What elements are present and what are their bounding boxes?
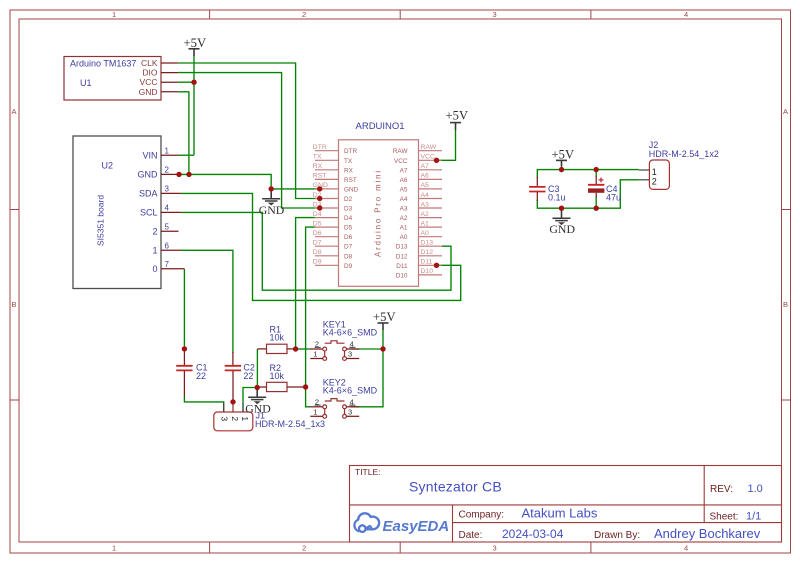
pin 2 GND (161, 173, 179, 175)
svg-text:2: 2 (152, 227, 157, 237)
svg-text:D10: D10 (396, 272, 408, 279)
svg-text:D10: D10 (421, 268, 434, 275)
svg-text:22: 22 (196, 371, 206, 381)
svg-text:D9: D9 (344, 263, 353, 270)
svg-text:1: 1 (112, 10, 116, 19)
svg-text:+5V: +5V (446, 109, 469, 123)
svg-text:+5V: +5V (373, 310, 396, 324)
title block column divider (logo) (452, 505, 454, 542)
capacitor C2 22 (225, 352, 255, 402)
pin 1 stub (242, 403, 244, 413)
junction ARDUINO1 D2 pin (317, 196, 322, 201)
wire C4 bottom lead lower part (595, 196, 597, 208)
junction ARDUINO1 VCC pin (434, 158, 439, 163)
svg-text:3: 3 (348, 350, 352, 359)
svg-text:RX: RX (313, 163, 323, 170)
pin 1 VIN (161, 154, 179, 156)
wire +5V flag down through KEY1 to KEY2 pin4 (351, 330, 383, 407)
junction C1 top (182, 346, 187, 351)
svg-text:2: 2 (302, 10, 306, 19)
svg-text:D9: D9 (313, 259, 322, 266)
svg-text:47u: 47u (606, 192, 621, 202)
EasyEDA logo cloud (354, 513, 379, 532)
plus sign (599, 179, 604, 181)
svg-text:GND: GND (259, 203, 285, 217)
svg-text:A4: A4 (400, 196, 408, 203)
junction C2 bottom J1 pin2 (230, 399, 235, 404)
title block row divider 2 (453, 522, 782, 524)
svg-text:A1: A1 (421, 220, 430, 227)
wire GND rail C3 C4 to J2 pin2 (537, 180, 639, 208)
pin 1 stub (639, 169, 650, 171)
svg-text:4: 4 (165, 204, 170, 213)
svg-text:A4: A4 (421, 192, 430, 199)
svg-text:Andrey Bochkarev: Andrey Bochkarev (654, 526, 761, 541)
svg-text:HDR-M-2.54_1x2: HDR-M-2.54_1x2 (649, 149, 719, 159)
svg-text:Date:: Date: (459, 530, 483, 541)
pin 7 (161, 268, 184, 270)
svg-text:D6: D6 (344, 234, 353, 241)
svg-text:D3: D3 (344, 206, 353, 213)
svg-text:A3: A3 (421, 201, 430, 208)
pin 1 (310, 358, 323, 360)
contact circles (323, 347, 327, 351)
svg-text:+5V: +5V (552, 148, 575, 162)
title block column divider (REV/Sheet) (703, 466, 705, 523)
wire ARDUINO1 D4 down to R1/KEY1 junction (296, 218, 315, 349)
pin 1 (310, 415, 323, 417)
capacitor C3 0.1u (529, 177, 565, 202)
ARDUINO1 left pins (313, 144, 359, 270)
svg-text:DIO: DIO (142, 68, 158, 78)
svg-text:2: 2 (302, 544, 306, 553)
svg-text:22: 22 (243, 371, 253, 381)
wire U2 pin6 to C2 top (181, 250, 233, 353)
svg-text:+5V: +5V (184, 36, 207, 50)
svg-text:4: 4 (684, 10, 688, 19)
pin VCC (161, 81, 178, 83)
+5V flag top-left (184, 36, 207, 56)
svg-text:A7: A7 (400, 167, 408, 174)
svg-text:D4: D4 (313, 211, 322, 218)
svg-text:SCL: SCL (140, 208, 158, 218)
wire U1 VCC to +5V junction (178, 81, 194, 83)
capacitor C1 22 (176, 349, 207, 397)
junction ARDUINO1 D11 pin (434, 263, 439, 268)
svg-text:D12: D12 (396, 253, 408, 260)
svg-text:10k: 10k (270, 371, 285, 381)
pin 2 (310, 348, 323, 350)
pushbutton KEY2 K4-6x6_SMD (310, 377, 377, 418)
wire U2 GND to ARDUINO1 GND with GND flag branch (179, 174, 320, 189)
display module U1 Arduino TM1637 (64, 57, 178, 101)
wire ARDUINO1 VCC to +5V flag (437, 130, 456, 161)
connector J1 HDR-M-2.54_1x3 (214, 403, 325, 431)
junction C4 bottom (594, 206, 599, 211)
svg-text:RX: RX (344, 167, 354, 174)
+5V flag at keys (373, 310, 396, 330)
svg-text:D7: D7 (344, 244, 353, 251)
svg-text:HDR-M-2.54_1x3: HDR-M-2.54_1x3 (255, 419, 325, 429)
svg-text:CLK: CLK (141, 58, 158, 68)
svg-text:D13: D13 (421, 240, 434, 247)
GND flag near J1 (245, 388, 271, 416)
+5V flag at ARDUINO1 VCC (446, 109, 469, 130)
svg-text:A: A (783, 107, 788, 116)
svg-text:ARDUINO1: ARDUINO1 (356, 121, 405, 132)
junction ARDUINO1 GND pin (317, 186, 322, 191)
capacitor C4 47u polarized (588, 176, 621, 202)
wire R1 junction to KEY1 pin2 (296, 348, 311, 350)
svg-text:3: 3 (165, 185, 170, 194)
svg-text:VCC: VCC (394, 158, 408, 165)
svg-text:D8: D8 (313, 249, 322, 256)
svg-text:1: 1 (313, 408, 317, 417)
svg-text:Syntezator CB: Syntezator CB (409, 479, 502, 495)
svg-text:TITLE:: TITLE: (355, 467, 381, 477)
svg-text:2: 2 (652, 176, 657, 186)
pin 3 (346, 358, 359, 360)
pin 5 (161, 230, 179, 232)
actuator bar (325, 399, 345, 401)
svg-text:GND: GND (549, 222, 575, 236)
pin 3 stub (223, 403, 225, 413)
svg-text:D4: D4 (344, 215, 353, 222)
clock generator U2 SI5351 board (73, 136, 184, 289)
svg-text:D13: D13 (396, 244, 408, 251)
svg-text:0: 0 (152, 264, 157, 274)
svg-text:SI5351 board: SI5351 board (96, 195, 106, 246)
pin CLK (161, 62, 178, 64)
microcontroller ARDUINO1 Arduino Pro mini (339, 121, 419, 286)
svg-text:0.1u: 0.1u (548, 192, 566, 202)
svg-text:3: 3 (348, 408, 352, 417)
junction +5V rail C3 (559, 167, 564, 172)
+5V flag at C3 C4 (552, 148, 575, 166)
svg-text:RAW: RAW (393, 148, 409, 155)
svg-text:SDA: SDA (139, 189, 158, 199)
wire +5V to U1 VCC and U2 VIN (vertical x=194) (193, 56, 195, 156)
junction R2 left GND (255, 385, 260, 390)
resistor R2 10k (257, 363, 305, 392)
svg-text:A6: A6 (400, 177, 408, 184)
svg-text:U1: U1 (80, 78, 92, 88)
junction C4 top (594, 167, 599, 172)
svg-text:Sheet:: Sheet: (710, 512, 739, 523)
svg-text:1/1: 1/1 (746, 511, 761, 523)
GND flag near ARDUINO1 (259, 189, 285, 217)
svg-text:REV:: REV: (710, 484, 733, 495)
junction U2 GND pin end (176, 172, 181, 177)
svg-text:A6: A6 (421, 173, 430, 180)
svg-text:Company:: Company: (459, 510, 505, 521)
wire C1 bottom to J1 pin3 (184, 396, 223, 412)
actuator bar (325, 341, 345, 343)
wire +5V flag stub to rail (561, 165, 563, 170)
svg-text:GND: GND (139, 87, 158, 97)
svg-text:A7: A7 (421, 163, 430, 170)
wire U2 pin7 to C1 top (183, 269, 185, 349)
svg-text:D2: D2 (344, 196, 353, 203)
pin 4 SCL (161, 211, 181, 213)
svg-text:3: 3 (493, 10, 497, 19)
svg-text:GND: GND (344, 186, 359, 193)
pin 2 stub (232, 403, 234, 413)
wire +5V rail to J2 pin1 over C3 C4 (537, 170, 639, 178)
bottom ruler ticks (209, 542, 211, 553)
svg-text:RST: RST (313, 173, 327, 180)
pin 2 (310, 406, 323, 408)
svg-text:4: 4 (684, 544, 688, 553)
svg-text:A5: A5 (421, 182, 430, 189)
svg-text:RAW: RAW (421, 144, 437, 151)
svg-text:GND: GND (138, 170, 159, 180)
junction U1 VCC +5V (191, 80, 196, 85)
svg-text:D6: D6 (313, 230, 322, 237)
svg-text:A0: A0 (421, 230, 430, 237)
junction R2 right KEY2 (303, 384, 308, 389)
svg-text:EasyEDA: EasyEDA (383, 518, 450, 535)
wire ARDUINO1 D5 down to R2/KEY2 junction (306, 227, 315, 407)
pin 3 (346, 415, 359, 417)
pin 2 stub (639, 179, 650, 181)
junction ARDUINO1 D3 pin (317, 205, 322, 210)
svg-text:A: A (12, 107, 17, 116)
pin GND (161, 91, 178, 93)
svg-text:1: 1 (313, 350, 317, 359)
svg-text:TX: TX (344, 158, 353, 165)
pin 4 (346, 348, 359, 350)
svg-text:D11: D11 (396, 263, 408, 270)
svg-text:1.0: 1.0 (748, 483, 763, 495)
top ruler ticks (209, 10, 211, 19)
pin DIO (161, 72, 178, 74)
svg-text:Drawn By:: Drawn By: (594, 530, 640, 541)
right ruler ticks (782, 209, 791, 211)
wire U2 VIN to +5V vertical (179, 154, 195, 156)
wire C4 top lead upper part (595, 170, 597, 177)
svg-text:B: B (783, 300, 788, 309)
title block row divider 1 (350, 504, 782, 506)
svg-text:A2: A2 (421, 211, 430, 218)
junction KEY1 +5V (380, 346, 385, 351)
svg-text:DTR: DTR (344, 148, 358, 155)
pin 3 SDA (161, 192, 181, 194)
svg-text:5: 5 (165, 223, 170, 232)
wire U2 SCL to ARDUINO1 D13 (181, 212, 451, 290)
svg-text:TX: TX (313, 154, 322, 161)
svg-text:GND: GND (245, 401, 271, 415)
wire R2 junction to J1 pin1 (243, 388, 257, 413)
svg-text:D5: D5 (344, 225, 353, 232)
svg-text:1: 1 (240, 416, 250, 421)
wire U1 CLK to ARDUINO1 D2 (178, 63, 319, 199)
wire U2 SDA to ARDUINO1 D11 (181, 193, 461, 300)
svg-text:K4-6×6_SMD: K4-6×6_SMD (323, 386, 378, 396)
GND flag at C3 C4 (549, 208, 575, 236)
svg-text:DTR: DTR (313, 144, 327, 151)
pushbutton KEY1 K4-6x6_SMD (310, 320, 377, 361)
FLAGS (184, 36, 576, 415)
svg-text:1: 1 (112, 544, 116, 553)
svg-text:Arduino TM1637: Arduino TM1637 (70, 59, 136, 69)
svg-text:D7: D7 (313, 240, 322, 247)
title block outline (350, 466, 782, 543)
svg-text:3: 3 (493, 544, 497, 553)
contact circles (323, 405, 327, 409)
svg-text:6: 6 (165, 242, 170, 251)
connector J2 HDR-M-2.54_1x2 (639, 140, 719, 189)
svg-text:Arduino Pro mini: Arduino Pro mini (374, 169, 383, 257)
svg-text:A0: A0 (400, 234, 408, 241)
svg-text:1: 1 (152, 246, 157, 256)
ARDUINO1 right pins (393, 144, 442, 279)
junction R1 right KEY1 (293, 346, 298, 351)
svg-text:VIN: VIN (142, 151, 157, 161)
svg-text:7: 7 (165, 260, 170, 269)
svg-text:A3: A3 (400, 206, 408, 213)
svg-text:Atakum Labs: Atakum Labs (522, 506, 598, 521)
svg-text:2024-03-04: 2024-03-04 (502, 527, 564, 541)
svg-text:RST: RST (344, 177, 357, 184)
TITLE BLOCK (350, 466, 782, 543)
resistor R1 10k (257, 325, 295, 354)
junction GND flag branch (269, 186, 274, 191)
junction GND rail C3 (559, 206, 564, 211)
svg-text:A1: A1 (400, 225, 408, 232)
svg-text:1: 1 (652, 167, 657, 177)
svg-text:D5: D5 (313, 220, 322, 227)
wire U1 DIO to ARDUINO1 D3 (178, 73, 319, 208)
svg-text:K4-6×6_SMD: K4-6×6_SMD (323, 328, 378, 338)
svg-text:D11: D11 (421, 259, 433, 266)
svg-text:D8: D8 (344, 253, 353, 260)
junction U1 GND / U2 GND (186, 172, 191, 177)
svg-text:A5: A5 (400, 186, 408, 193)
svg-text:1: 1 (165, 147, 170, 156)
left ruler ticks (10, 209, 19, 211)
svg-text:VCC: VCC (421, 154, 435, 161)
svg-text:3: 3 (220, 416, 230, 421)
svg-text:U2: U2 (102, 161, 114, 171)
svg-text:10k: 10k (270, 333, 285, 343)
svg-text:A2: A2 (400, 215, 408, 222)
svg-text:2: 2 (165, 166, 170, 175)
pin 6 (161, 249, 181, 251)
pin 4 (346, 406, 359, 408)
wire U1 GND down to U2 GND row (178, 92, 189, 175)
wire KEY1 pin4 to +5V vertical (351, 348, 383, 350)
svg-text:2: 2 (230, 416, 240, 421)
wire R1 left down to R2 left junction (256, 349, 258, 388)
svg-text:B: B (12, 300, 17, 309)
svg-text:VCC: VCC (140, 77, 158, 87)
svg-text:D12: D12 (421, 249, 434, 256)
